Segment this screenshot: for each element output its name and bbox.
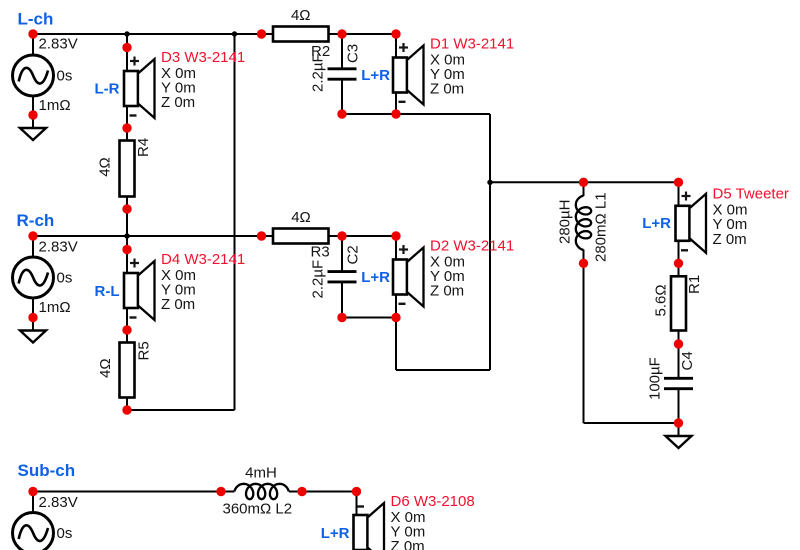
junction mid column tweeter row bbox=[487, 180, 492, 185]
wire mid column bbox=[489, 114, 491, 370]
svg-text:L-ch: L-ch bbox=[18, 10, 54, 29]
capacitor C4 bbox=[664, 377, 693, 380]
svg-text:2.2µF: 2.2µF bbox=[310, 260, 327, 299]
node C3 top bbox=[337, 29, 346, 38]
svg-text:R1: R1 bbox=[686, 275, 703, 294]
node C2 bottom bbox=[337, 313, 346, 322]
svg-text:4Ω: 4Ω bbox=[291, 7, 311, 24]
wire Sub source stub bbox=[32, 492, 34, 550]
plus mark D1 bbox=[399, 46, 408, 48]
resistor R4 bbox=[120, 141, 135, 197]
node L2 right bbox=[297, 487, 306, 496]
speaker D5 bbox=[676, 194, 707, 253]
speaker D4 bbox=[124, 261, 155, 320]
resistor R1 bbox=[671, 276, 686, 330]
node R-ch source top bbox=[28, 231, 37, 240]
svg-text:Z 0m: Z 0m bbox=[713, 231, 747, 248]
svg-text:2.2µF: 2.2µF bbox=[310, 53, 327, 92]
minus mark D3 bbox=[130, 114, 137, 116]
speaker D1 bbox=[393, 46, 424, 105]
wire D1 column bbox=[395, 34, 397, 114]
svg-text:4mH: 4mH bbox=[245, 464, 277, 481]
speaker D6 bbox=[354, 503, 385, 550]
minus mark D2 bbox=[399, 303, 406, 305]
svg-text:2.83V: 2.83V bbox=[39, 239, 78, 256]
resistor R5 bbox=[120, 343, 135, 398]
svg-text:D3 W3-2141: D3 W3-2141 bbox=[161, 49, 245, 66]
inductor L2 coil bbox=[234, 484, 288, 499]
svg-text:4Ω: 4Ω bbox=[96, 157, 113, 177]
speaker D3 bbox=[124, 59, 155, 118]
node R3 left bbox=[257, 231, 266, 240]
ground L-ch bbox=[20, 128, 46, 140]
svg-text:2.83V: 2.83V bbox=[39, 494, 78, 511]
inductor L1 coil bbox=[576, 196, 591, 250]
svg-text:0s: 0s bbox=[57, 525, 73, 542]
node L1 bottom bbox=[579, 259, 588, 268]
ground R-ch bbox=[20, 331, 46, 343]
svg-text:C4: C4 bbox=[679, 351, 696, 370]
svg-text:R4: R4 bbox=[135, 138, 152, 157]
svg-text:D1 W3-2141: D1 W3-2141 bbox=[430, 35, 514, 52]
wire L-ch source stub bbox=[32, 34, 34, 128]
svg-text:4Ω: 4Ω bbox=[291, 209, 311, 226]
svg-text:R3: R3 bbox=[311, 243, 330, 260]
capacitor C2 bbox=[328, 270, 357, 273]
wire L1 bottom lead bbox=[583, 250, 585, 424]
svg-text:Z 0m: Z 0m bbox=[161, 94, 195, 111]
svg-text:L+R: L+R bbox=[361, 269, 390, 286]
svg-text:100µF: 100µF bbox=[647, 357, 664, 400]
wire R-ch row bbox=[33, 235, 396, 237]
minus mark D1 bbox=[399, 101, 406, 103]
svg-text:5.6Ω: 5.6Ω bbox=[653, 284, 670, 316]
svg-text:D2 W3-2141: D2 W3-2141 bbox=[430, 237, 514, 254]
svg-text:1mΩ: 1mΩ bbox=[39, 299, 71, 316]
resistor R2 bbox=[273, 27, 329, 42]
node L2 left bbox=[216, 487, 225, 496]
node R2 left bbox=[257, 29, 266, 38]
node R1 bottom / C4 top bbox=[674, 339, 683, 348]
wire Sub-ch row bbox=[33, 491, 234, 493]
svg-text:L+R: L+R bbox=[642, 215, 671, 232]
node D4 plus bbox=[122, 245, 131, 254]
plus mark D2 bbox=[399, 248, 408, 250]
svg-text:280mΩ L1: 280mΩ L1 bbox=[593, 192, 610, 262]
node L-ch source top bbox=[28, 29, 37, 38]
svg-text:2.83V: 2.83V bbox=[39, 36, 78, 53]
plus mark D4 bbox=[130, 262, 139, 264]
plus mark D3 bbox=[130, 60, 139, 62]
node C3 bottom bbox=[337, 109, 346, 118]
svg-text:C2: C2 bbox=[345, 245, 362, 264]
wire D5/R1 column bbox=[678, 182, 680, 378]
speaker D2 bbox=[393, 248, 424, 307]
wire D2 column bbox=[395, 236, 397, 370]
plus mark D5 bbox=[682, 195, 691, 197]
node D5 plus bbox=[674, 178, 683, 187]
node C2 top bbox=[337, 231, 346, 240]
svg-text:D5 Tweeter: D5 Tweeter bbox=[713, 186, 789, 203]
svg-text:L+R: L+R bbox=[361, 67, 390, 84]
node L-ch source bottom bbox=[28, 110, 37, 119]
node R4 bottom bbox=[122, 204, 131, 213]
wire L1 top lead bbox=[583, 182, 585, 196]
node Sub source top bbox=[28, 487, 37, 496]
wire tweeter row bbox=[490, 181, 679, 183]
svg-text:Z 0m: Z 0m bbox=[430, 283, 464, 300]
wire R-ch net bbox=[32, 236, 34, 331]
capacitor C3 bbox=[328, 67, 357, 70]
junction D3 column R-ch row bbox=[124, 233, 129, 238]
node R5 bottom bbox=[122, 405, 131, 414]
svg-text:D4 W3-2141: D4 W3-2141 bbox=[161, 251, 245, 268]
node D2 minus bbox=[391, 313, 400, 322]
svg-text:R-ch: R-ch bbox=[17, 211, 55, 230]
wire D6 lead bbox=[356, 492, 358, 550]
svg-text:4Ω: 4Ω bbox=[97, 358, 114, 378]
node D5 minus / R1 top bbox=[674, 259, 683, 268]
svg-text:R-L: R-L bbox=[95, 283, 120, 300]
minus mark D5 bbox=[681, 249, 688, 251]
voltage source V3 Sub-ch bbox=[13, 513, 54, 550]
wire bridge column bbox=[234, 34, 236, 410]
svg-text:D6 W3-2108: D6 W3-2108 bbox=[391, 493, 475, 510]
svg-text:280µH: 280µH bbox=[557, 199, 574, 244]
node D1 plus bbox=[391, 29, 400, 38]
svg-text:Z 0m: Z 0m bbox=[430, 81, 464, 98]
node C4 bottom bbox=[674, 418, 683, 427]
wire bridge bottom bbox=[127, 409, 235, 411]
node D4 minus / R5 top bbox=[122, 325, 131, 334]
svg-text:Sub-ch: Sub-ch bbox=[18, 461, 76, 480]
node R-ch source bottom bbox=[28, 313, 37, 322]
svg-text:0s: 0s bbox=[57, 68, 73, 85]
voltage source V2 R-ch bbox=[13, 257, 54, 298]
svg-text:Z 0m: Z 0m bbox=[391, 538, 425, 550]
node D3 plus bbox=[122, 43, 131, 52]
wire C4 bottom lead bbox=[678, 388, 680, 436]
wire Sub coil to D6 bbox=[289, 491, 357, 493]
svg-text:1mΩ: 1mΩ bbox=[39, 97, 71, 114]
wire row D2 to mid column bbox=[396, 369, 490, 371]
node D2 plus bbox=[391, 231, 400, 240]
node D6 minus bbox=[352, 487, 361, 496]
wire top L-ch net bbox=[33, 33, 396, 35]
svg-text:R5: R5 bbox=[136, 341, 153, 360]
minus mark D6 bbox=[357, 505, 364, 507]
node D3 minus / R4 top bbox=[122, 123, 131, 132]
resistor R3 bbox=[273, 229, 329, 244]
wire column D3/R4/D4/R5 bbox=[126, 34, 128, 410]
svg-text:C3: C3 bbox=[345, 44, 362, 63]
voltage source V1 L-ch bbox=[13, 55, 54, 96]
node L1 top bbox=[579, 178, 588, 187]
wire C2 top lead bbox=[341, 236, 343, 272]
wire C2 bottom lead bbox=[341, 282, 343, 318]
wire bottom row L1-C4 bbox=[584, 422, 679, 424]
wire C3 bottom lead bbox=[341, 79, 343, 114]
ground under C4 bbox=[666, 436, 692, 448]
wire row C2-D2 bottom bbox=[342, 317, 396, 319]
node D1 minus bbox=[391, 109, 400, 118]
svg-text:L-R: L-R bbox=[95, 81, 120, 98]
svg-text:360mΩ L2: 360mΩ L2 bbox=[223, 501, 293, 518]
svg-text:Z 0m: Z 0m bbox=[161, 296, 195, 313]
junction at D3 column top bbox=[124, 31, 129, 36]
junction at bridge column top bbox=[232, 31, 237, 36]
wire C3 top lead bbox=[341, 34, 343, 69]
minus mark D4 bbox=[130, 316, 137, 318]
wire row C3-D1 bottom bbox=[342, 113, 490, 115]
svg-text:0s: 0s bbox=[57, 270, 73, 287]
svg-text:L+R: L+R bbox=[321, 525, 350, 542]
